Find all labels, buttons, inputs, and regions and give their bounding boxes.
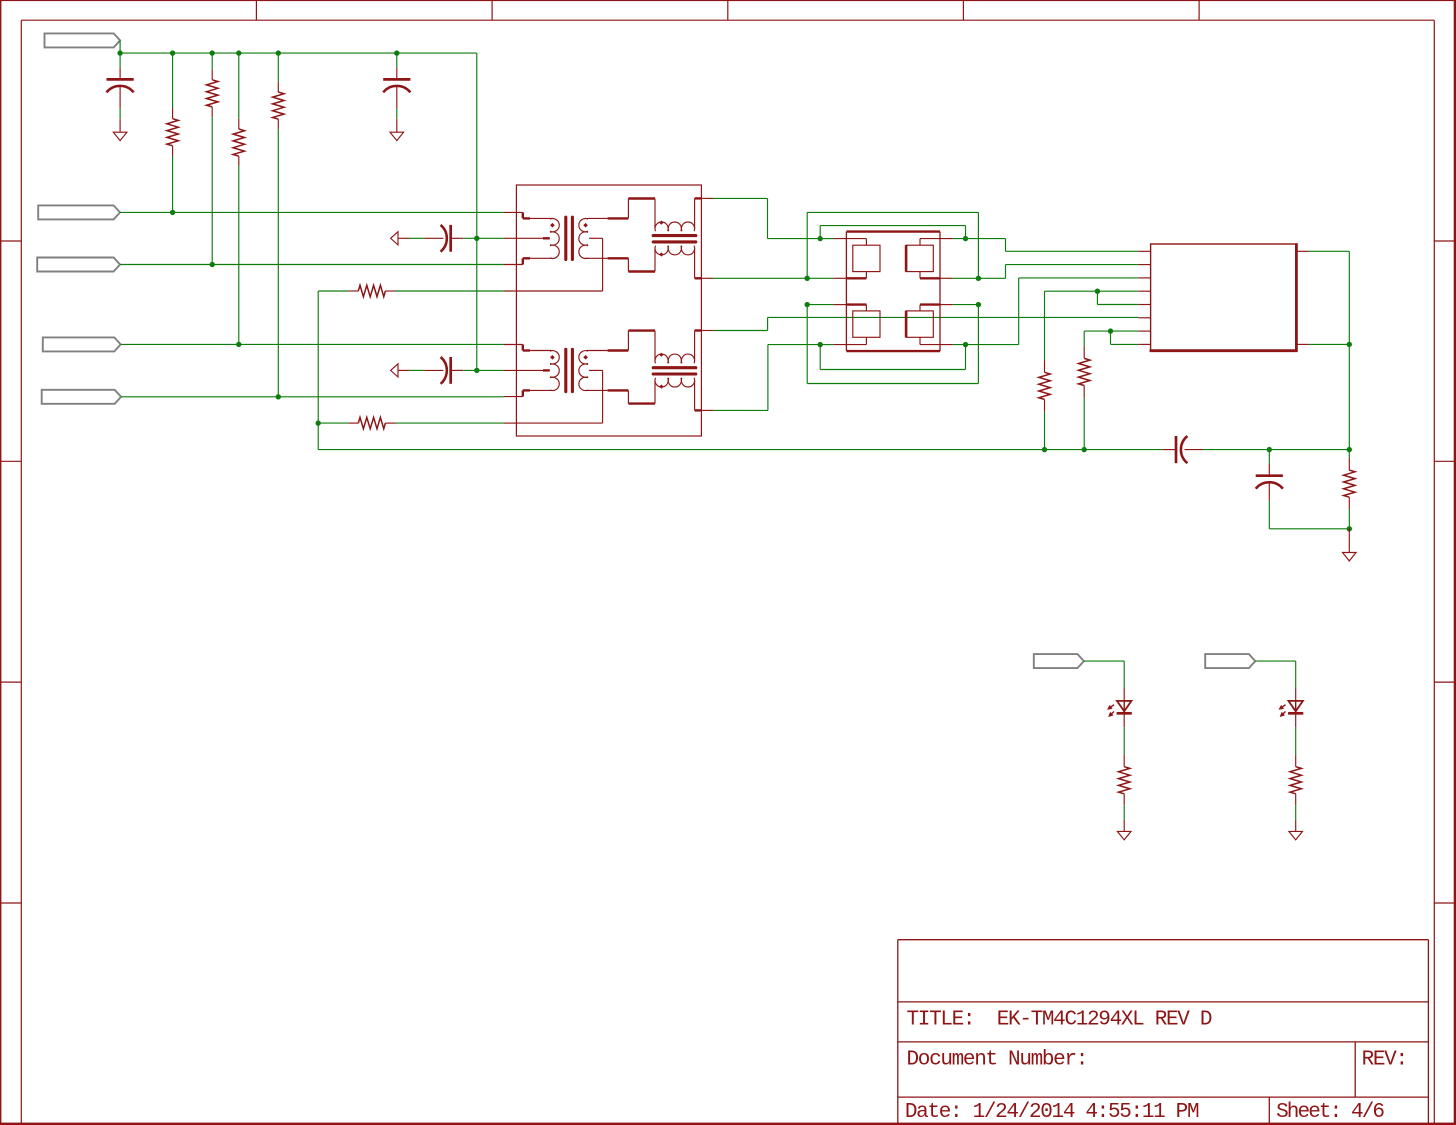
- wire choke2 top to pin C riser: [701, 278, 1018, 331]
- junction R9/C6: [1347, 526, 1352, 531]
- wire pin G: [1084, 331, 1138, 346]
- net flag ETHTXON: [45, 33, 121, 47]
- transformer T1 bottom channel windings and choke: [504, 331, 702, 424]
- junction pin G/H tie: [1108, 328, 1113, 333]
- junction rail/flag1: [117, 50, 122, 55]
- wire resistor to ground LED1: [1123, 794, 1125, 832]
- resistor R8 (GH termination): [1078, 346, 1089, 449]
- wire row1 left stub: [820, 238, 833, 240]
- resistor R11 (LED1 limit): [1118, 767, 1129, 794]
- net flag LED1: [1034, 654, 1084, 668]
- junction shield pins: [1347, 342, 1352, 347]
- title block outline: [898, 940, 1429, 1123]
- wire RJ45 shield: [1309, 251, 1349, 449]
- U1 pin row2 right: [920, 272, 953, 279]
- component U1 outline: [846, 232, 940, 352]
- ground LED1: [1117, 831, 1131, 839]
- junction R7/rail: [1042, 447, 1047, 452]
- junction R6/vertical: [316, 420, 321, 425]
- capacitor C3 with arrow (top channel bias): [391, 232, 398, 245]
- junction row3/outer loop right: [976, 302, 981, 307]
- resistor R4: [273, 53, 284, 397]
- junction row1 left: [818, 236, 823, 241]
- wire C4 to junction: [463, 369, 503, 371]
- U1 pin row2 left: [834, 272, 867, 279]
- resistor R9 (shield bleed): [1344, 450, 1355, 529]
- wire LED1: [1084, 661, 1124, 701]
- capacitor C5 (rail series): [1163, 436, 1203, 463]
- junction rail/R3: [236, 50, 241, 55]
- junction rail/R1: [170, 50, 175, 55]
- junction R3/flag4 wire: [236, 342, 241, 347]
- junction row2/outer loop left: [805, 276, 810, 281]
- capacitor C4 with arrow (bottom channel bias): [391, 364, 398, 377]
- wire flag3: [120, 264, 504, 266]
- U1 pin row1 right: [920, 239, 953, 246]
- resistor R2: [207, 53, 218, 264]
- junction row4 left: [818, 342, 823, 347]
- junction rail/R2: [210, 50, 215, 55]
- wire row3 right: [953, 304, 979, 306]
- wire LED1 to resistor: [1123, 713, 1125, 766]
- frame column ticks top: [256, 0, 1199, 20]
- wire row4 to pin F: [953, 317, 1139, 344]
- wire pin E: [1097, 291, 1138, 304]
- ground below C1: [113, 132, 127, 140]
- transformer T1 outline: [516, 185, 701, 436]
- wire vertical to lower arrow cap: [476, 238, 478, 370]
- wire ct vertical: [317, 291, 319, 450]
- ground LED2: [1289, 831, 1303, 839]
- capacitor C2: [383, 53, 410, 132]
- junction R4/flag5 wire: [276, 394, 281, 399]
- svg-text:Document Number:: Document Number:: [907, 1049, 1088, 1072]
- resistor R6 (bottom ct): [318, 417, 516, 428]
- wire choke1 bottom to row2: [701, 277, 833, 279]
- net flag ETHTXOP: [38, 205, 120, 219]
- RJ45 jack J1 outline: [1150, 243, 1298, 352]
- U1 square TR: [906, 245, 933, 271]
- wire choke2 bottom to row4: [701, 345, 820, 411]
- junction pin D/E tie: [1095, 289, 1100, 294]
- frame row ticks right: [1434, 241, 1456, 903]
- U1 pin row4 right: [920, 337, 953, 344]
- junction row1 right: [963, 236, 968, 241]
- wire common rail: [318, 449, 1349, 451]
- resistor R7 (DE termination): [1039, 360, 1050, 450]
- wire flag5: [121, 396, 504, 398]
- wire LED2: [1255, 661, 1295, 701]
- net flag ETHRXIP: [43, 337, 121, 351]
- wire pin H: [1111, 331, 1139, 344]
- wire inner bottom U (choke2 bottom net): [820, 345, 965, 370]
- junction row2/outer loop right: [976, 276, 981, 281]
- transformer T1 top channel windings and choke: [504, 198, 702, 291]
- junction R2/flag3 wire: [210, 262, 215, 267]
- capacitor C1: [107, 53, 134, 132]
- resistor R3: [233, 53, 244, 344]
- svg-text:Date: 1/24/2014 4:55:11 PM: Date: 1/24/2014 4:55:11 PM: [905, 1101, 1199, 1124]
- wire resistor to ground LED2: [1295, 794, 1297, 832]
- net flag ETHRXIN2: [42, 390, 121, 404]
- wire choke1 top to row1: [701, 198, 820, 238]
- wire flag4: [121, 343, 504, 345]
- junction R8/rail: [1082, 447, 1087, 452]
- U1 square TL: [853, 245, 880, 271]
- wire row3 left: [807, 304, 833, 306]
- wire pin D: [1045, 291, 1139, 360]
- junction shield/rail: [1347, 447, 1352, 452]
- U1 square BL: [853, 311, 880, 337]
- wire rail drop right: [476, 53, 478, 238]
- junction rail/C2: [394, 50, 399, 55]
- wire to chassis ground: [1348, 529, 1350, 553]
- wire outer bottom U (row3 net): [807, 305, 978, 384]
- wire row2 to pin B: [953, 265, 1139, 279]
- U1 pin row4 left: [834, 337, 867, 344]
- wire row4 left stub: [820, 344, 833, 346]
- junction R1/flag2 wire: [170, 210, 175, 215]
- junction C6/rail: [1267, 447, 1272, 452]
- RJ45 left pins: [1139, 251, 1151, 344]
- U1 pin row1 left: [834, 239, 867, 246]
- frame row ticks left: [0, 241, 21, 903]
- junction C3/vertical: [474, 236, 479, 241]
- wire flag1 to rail: [119, 40, 121, 53]
- svg-text:REV:: REV:: [1362, 1048, 1407, 1071]
- junction row4 right: [963, 342, 968, 347]
- resistor R5 (top ct): [318, 285, 516, 296]
- wire top rail: [120, 52, 477, 54]
- net flag LED2: [1205, 654, 1255, 668]
- ground below C2: [390, 132, 404, 140]
- wire flag2: [120, 211, 504, 213]
- resistor R1: [167, 53, 178, 212]
- wire sec ct top to R5: [504, 290, 514, 292]
- LED D2: [1289, 701, 1303, 711]
- wire C3 to junction: [463, 237, 503, 239]
- wire row1 to pin A: [953, 239, 1139, 252]
- svg-text:TITLE: EK-TM4C1294XL REV D: TITLE: EK-TM4C1294XL REV D: [907, 1008, 1212, 1031]
- capacitor C6 (shield to gnd): [1256, 450, 1350, 529]
- svg-text:Sheet: 4/6: Sheet: 4/6: [1276, 1101, 1384, 1124]
- RJ45 right pin top: [1296, 250, 1309, 252]
- LED D1: [1117, 701, 1131, 711]
- U1 pin row3 right: [920, 305, 953, 311]
- junction row3/outer loop left: [805, 302, 810, 307]
- wire inner top U (choke1 top net): [820, 226, 965, 239]
- RJ45 right pin bottom: [1296, 343, 1309, 345]
- U1 pin row3 left: [834, 305, 867, 311]
- chassis ground: [1343, 553, 1357, 561]
- wire pin C: [1019, 277, 1139, 279]
- resistor R12 (LED2 limit): [1290, 767, 1301, 794]
- net flag ETHRXIN: [37, 258, 120, 272]
- junction rail/R4: [276, 50, 281, 55]
- U1 square BR: [906, 311, 933, 337]
- wire LED2 to resistor: [1295, 713, 1297, 766]
- wire outer top U (row2 net): [807, 212, 978, 278]
- junction C4/vertical: [474, 368, 479, 373]
